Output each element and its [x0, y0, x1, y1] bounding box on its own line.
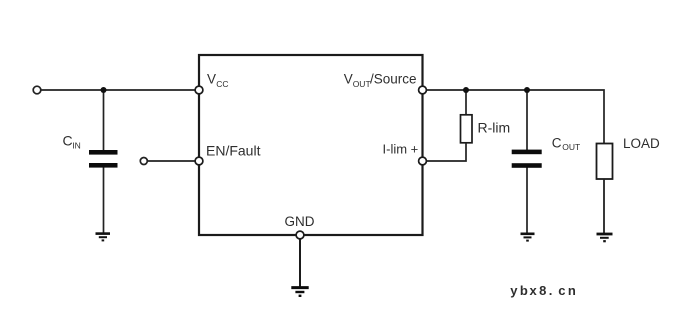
- pin Ilim: [419, 157, 427, 165]
- pin VOUT/Source: [419, 86, 427, 94]
- capacitor CIN plates: [89, 150, 118, 155]
- svg-text:C: C: [63, 132, 73, 148]
- resistor Rlim: [461, 115, 473, 143]
- wire input to VCC pin: [40, 89, 197, 91]
- svg-text:R-lim: R-lim: [478, 120, 511, 136]
- wire COUT to ground: [526, 167, 528, 233]
- junction dot input node: [101, 87, 107, 93]
- wire COUT drop: [526, 90, 528, 151]
- junction dot Rlim node: [463, 87, 469, 93]
- capacitor COUT plates: [512, 150, 542, 155]
- svg-text:C: C: [552, 136, 562, 151]
- svg-text:ybx8.cn: ybx8.cn: [510, 283, 576, 298]
- wire CIN drop: [103, 90, 105, 151]
- ground for GND pin: [291, 288, 308, 296]
- svg-text:OUT: OUT: [353, 79, 371, 89]
- resistor LOAD: [597, 144, 613, 180]
- wire VOUT rail: [424, 90, 604, 144]
- wire CIN to ground: [103, 167, 105, 233]
- svg-text:LOAD: LOAD: [623, 136, 660, 151]
- svg-text:/Source: /Source: [370, 71, 417, 86]
- junction dot COUT node: [524, 87, 530, 93]
- IC U1 body: [199, 55, 423, 235]
- svg-text:GND: GND: [285, 214, 315, 229]
- ground for LOAD: [597, 234, 613, 241]
- svg-text:CC: CC: [216, 79, 228, 89]
- svg-text:V: V: [344, 71, 353, 86]
- svg-text:I-lim +: I-lim +: [383, 142, 419, 157]
- wire LOAD to ground: [603, 179, 605, 233]
- svg-text:V: V: [207, 72, 216, 87]
- svg-text:EN/Fault: EN/Fault: [206, 143, 261, 159]
- ground for COUT: [521, 234, 535, 241]
- pin EN/Fault: [195, 157, 203, 165]
- pin GND: [296, 231, 304, 239]
- terminal VIN: [33, 86, 41, 94]
- ground for CIN: [96, 234, 111, 241]
- wire EN terminal to EN pin: [147, 160, 197, 162]
- svg-text:IN: IN: [72, 140, 81, 150]
- wire Rlim top: [465, 90, 467, 115]
- wire Rlim bottom to Ilim pin: [424, 143, 466, 161]
- terminal EN: [140, 158, 147, 165]
- svg-text:OUT: OUT: [562, 142, 580, 152]
- wire GND pin to ground: [299, 237, 301, 287]
- pin VCC: [195, 86, 203, 94]
